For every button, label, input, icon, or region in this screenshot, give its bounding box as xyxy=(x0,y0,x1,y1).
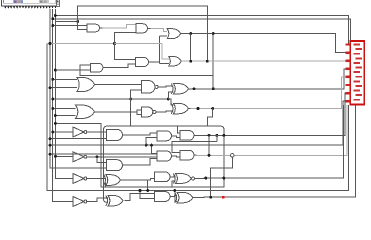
wire branch x190 down xyxy=(190,34,192,61)
wire row87 to U8 in2 xyxy=(50,87,77,89)
junction row61 x207 xyxy=(206,60,209,63)
AND gate U5 xyxy=(136,58,149,67)
junction row99 x130 xyxy=(129,98,132,101)
OR gate U6 xyxy=(169,56,182,66)
wire stub to U4 in2 xyxy=(160,35,168,37)
wire N2 out to B2 mid xyxy=(87,156,157,158)
junction row33 x213 xyxy=(212,32,215,35)
wire XA out to x147 branch xyxy=(121,179,148,181)
wire A1 out to B1 in1 xyxy=(125,133,157,135)
wire U13 out to U11 in2 xyxy=(156,110,174,113)
junction bus C row115 xyxy=(54,114,57,117)
wire bus line D x=47 xyxy=(47,44,348,191)
wire pad branch down to row197 xyxy=(211,157,233,197)
junction row89 x213 xyxy=(212,87,215,90)
wire U3 out to U4 (gray) xyxy=(151,28,168,31)
junction bus C row123 xyxy=(54,122,57,125)
wire row25 to U2 in1 xyxy=(53,25,87,27)
junction bus B row79 xyxy=(51,78,54,81)
wire row79 to U8 in1 xyxy=(53,78,77,80)
wire row141 to C2 in1 xyxy=(172,141,217,152)
NOT gate N4 xyxy=(73,197,84,207)
OR gate U8 xyxy=(77,78,95,92)
wire row158 to N2 xyxy=(55,155,73,157)
junction row145 x151 xyxy=(150,144,153,147)
wire row132 to N1 xyxy=(53,131,73,133)
junction row134 x223 (wire P) xyxy=(222,134,225,137)
wire U11 out gray row108 to DS1 pin6 xyxy=(191,77,346,109)
wire branch to A2 in1 xyxy=(97,157,107,163)
wire AB out to XB in1 xyxy=(173,176,176,177)
junction bus C row70 xyxy=(54,69,57,72)
wire N4 out to XC in1 xyxy=(87,198,108,202)
OR gate U12 xyxy=(76,105,95,119)
NOT gate N3 xyxy=(73,174,84,184)
XOR gate U10 xyxy=(174,84,189,95)
red junction row197 xyxy=(222,196,225,199)
junction bus B row18 xyxy=(51,17,54,20)
IC U1 (module at top-left, cropped by screenshot top) xyxy=(2,0,59,6)
wire U12 out branch to U13 in2 xyxy=(137,112,141,115)
wire gray row43 xyxy=(47,43,115,45)
wire row21 xyxy=(55,21,77,23)
junction bus A row138 xyxy=(49,137,52,140)
NAND gate U13 xyxy=(141,107,153,117)
junction row155 x209 xyxy=(208,154,211,157)
wire row99 up to U10 in2 xyxy=(168,92,173,99)
wire P routing loop (box) xyxy=(55,123,224,202)
wire row99 xyxy=(53,98,131,100)
wire row134 branch down xyxy=(216,135,218,141)
junction bus B row132 xyxy=(51,131,54,134)
wire stub to U6 in2 xyxy=(160,63,169,65)
wire U4 out row33 to DS1 pin2 xyxy=(183,34,351,53)
wire row145 long xyxy=(50,101,346,145)
wire row99 down to U11 in1 xyxy=(168,99,173,105)
XOR gate XA xyxy=(106,175,121,186)
wire bus line A x=50 xyxy=(50,9,107,168)
wire row186 jog to XA in2 xyxy=(104,183,107,187)
junction bus B row25 xyxy=(51,24,54,27)
junction row191 x174 xyxy=(173,189,176,192)
wire A2 out to B2 in2 xyxy=(125,159,157,166)
AND gate B1 xyxy=(157,131,172,141)
wire W1 loop top xyxy=(78,6,208,61)
wire row18 to DS1 pin1b xyxy=(53,19,351,47)
wire feedback row75 to U7 in1 xyxy=(80,65,213,76)
junction bus A row87 xyxy=(49,86,52,89)
wire U2 out to U3 (gray) xyxy=(103,24,137,28)
AND gate C2 xyxy=(180,150,194,160)
AND gate U7 xyxy=(90,63,103,72)
junction row43 x114 xyxy=(113,42,116,45)
wire row115 to U12 in2 xyxy=(55,115,75,117)
junction row108 x198 xyxy=(197,107,200,110)
wire XD out row197 to DS1 bottom xyxy=(195,105,355,198)
AND gate AB xyxy=(155,172,171,182)
wire U9 out to U10 in1 xyxy=(159,85,174,88)
junction bus C row15 xyxy=(54,14,57,17)
junction row191 x140 xyxy=(139,189,142,192)
wire U5 out xyxy=(152,61,160,63)
wire B2 out to C2 in2 xyxy=(175,156,181,157)
wire branch x212 zigzag to box top xyxy=(208,109,213,127)
AND gate C1 xyxy=(180,131,194,141)
wire row43 down to U5 in1 xyxy=(115,44,136,60)
wire U6 out gray row61 to DS1 pin3 xyxy=(181,60,350,62)
wire U12 out to U13 in1 xyxy=(95,110,142,112)
junction W1 row21 xyxy=(76,20,79,23)
wire row43 jog to U6 in1 xyxy=(162,44,169,60)
wire row145 up to B1 in2 xyxy=(146,138,157,146)
wire U7 out jog to U5 in2 xyxy=(106,64,136,67)
wire N1 out to A1 in1 xyxy=(87,131,106,133)
wire gray row43 ext xyxy=(115,43,163,45)
XOR gate XD xyxy=(177,192,193,203)
XOR gate U11 xyxy=(174,103,189,114)
XOR gate XB xyxy=(176,174,192,184)
wire N3 out to XA in1 xyxy=(87,178,106,180)
AND gate U2 xyxy=(87,24,99,32)
wire bus line C x=55.4 xyxy=(55,9,73,179)
junction row99 x168 xyxy=(167,98,170,101)
junction N2 out x97 xyxy=(96,155,99,158)
wire row191 branch to BB in2 xyxy=(140,191,155,199)
junction bus A row154 xyxy=(49,153,52,156)
AND gate A1 xyxy=(107,129,123,140)
wire vert x209 down xyxy=(208,135,210,155)
wire row99 vert to box top xyxy=(130,99,132,126)
wire staircase vertical x159 xyxy=(159,36,161,64)
AND gate BB xyxy=(155,192,171,202)
wire row154 to B2 in1 xyxy=(50,153,157,155)
wire XB out row178 to DS1 bottom xyxy=(197,105,344,179)
wire row43 up to U3 in2 xyxy=(115,32,137,43)
wire BB out to XD in1 xyxy=(173,195,178,196)
wire row191 branch to XD in2 xyxy=(175,191,177,202)
wire C1 out row134 to DS1 pin7 xyxy=(197,93,346,135)
wire branch x213 down xyxy=(212,34,214,89)
wire x147 jog to AB in2 xyxy=(148,178,155,180)
junction row191 x147 xyxy=(146,189,149,192)
wire C2 out gray row155 xyxy=(197,105,348,156)
wire row145 down to B2 in1 xyxy=(152,145,157,153)
NAND gate U9 xyxy=(142,81,155,94)
wire x147 down to row191 xyxy=(147,180,149,190)
wire row70 to U7 in2 xyxy=(55,69,90,71)
OR gate U4 xyxy=(167,29,181,39)
wire row186 jog up to XB in2 xyxy=(172,181,176,187)
AND gate U3 xyxy=(136,24,147,33)
junction row89 x194 xyxy=(193,87,196,90)
XOR gate XC xyxy=(108,195,123,206)
junction bus A row145 xyxy=(49,144,52,147)
wire box top to C1 in1 xyxy=(178,126,181,133)
junction row178 x205 xyxy=(204,177,207,180)
wire U8 out to U9 in1 xyxy=(95,83,142,85)
junction row134 x216 xyxy=(215,134,218,137)
wire row138 to A1 in2 xyxy=(50,138,107,140)
AND gate B2 xyxy=(157,151,172,161)
connection pad on row155 xyxy=(231,154,235,158)
junction row61 x190 xyxy=(189,60,192,63)
junction row108 x212 xyxy=(211,107,214,110)
wire row108s to U12 in1 xyxy=(53,108,76,110)
AND gate A2 xyxy=(107,160,123,171)
NOT gate N1 xyxy=(73,127,84,137)
wire row99 ext to x168 xyxy=(131,98,169,100)
junction bus C row158 xyxy=(54,155,57,158)
wire U10 out row89 to DS1 pin5 xyxy=(191,69,346,89)
junction row178 x223 (wire P) xyxy=(222,177,225,180)
wire B1 out to C1 in2 xyxy=(175,136,181,138)
junction row197 x210 xyxy=(209,196,212,199)
wire bus line B x=52.7 xyxy=(53,9,73,202)
junction row134 x209 xyxy=(208,134,211,137)
junction row145 x146 xyxy=(145,144,148,147)
NOT gate N2 xyxy=(73,152,84,162)
junction row43 bus A xyxy=(49,42,52,45)
junction row33 x190 xyxy=(189,32,192,35)
wire row15 to DS1 pin1 xyxy=(55,16,350,45)
display DS1 red module right edge xyxy=(350,41,364,105)
junction bus B row99 xyxy=(51,98,54,101)
junction bus B row108 xyxy=(51,107,54,110)
wire XC out to BB in1 xyxy=(125,193,155,200)
wire row99 up to U9 in2 xyxy=(131,90,142,99)
